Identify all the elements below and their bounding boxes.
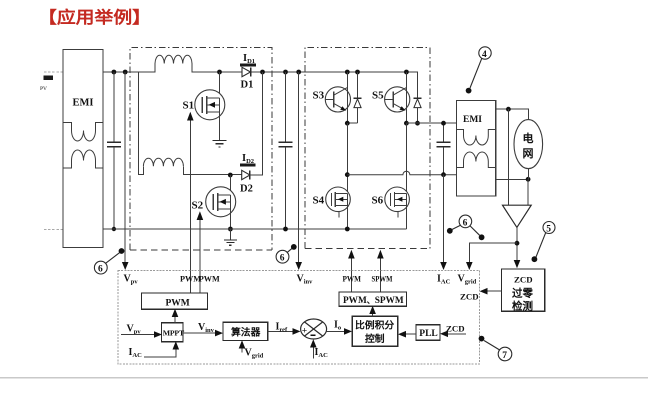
svg-text:比例积分: 比例积分 bbox=[355, 319, 394, 332]
diode D2 bbox=[240, 170, 253, 194]
circled 6 middle with callout bbox=[276, 244, 297, 264]
ground under S1 bbox=[213, 141, 227, 147]
EMI filter U2 box bbox=[457, 100, 496, 196]
svg-text:MPPT: MPPT bbox=[163, 329, 185, 338]
IAC stub arrow into summing bbox=[310, 339, 328, 359]
svg-text:算法器: 算法器 bbox=[230, 326, 261, 339]
circled 7 with callout bbox=[479, 336, 512, 361]
circled 6 left with callout bbox=[94, 248, 124, 274]
Vgrid branch wire with arrow bbox=[466, 243, 517, 270]
label IAC top bbox=[437, 274, 451, 286]
diode of S5 bbox=[404, 72, 421, 126]
EMI U1 choke upper winding bbox=[63, 123, 103, 142]
SPWM gate arrow left bbox=[348, 250, 355, 292]
svg-text:D2: D2 bbox=[240, 184, 253, 195]
svg-text:控制: 控制 bbox=[365, 332, 385, 345]
boost converter dashed-dot box bbox=[130, 48, 272, 250]
inductor L2 bbox=[143, 158, 183, 166]
label IAC inner + elbow arrow to MPPT bbox=[129, 341, 180, 359]
AC filter capacitor C3 bbox=[437, 121, 451, 177]
sense wire upper to comparator bbox=[507, 109, 509, 205]
full bridge dash-dot box bbox=[305, 47, 430, 248]
current label ID2 bbox=[240, 153, 256, 166]
Vgrid stub arrow into 算法器 bbox=[239, 340, 264, 359]
arrow MPPT to 算法器 + label Vinv bbox=[183, 322, 223, 336]
circled 5 with callout bbox=[532, 222, 556, 263]
separator line bottom bbox=[0, 377, 648, 379]
svg-text:+: + bbox=[302, 326, 307, 336]
svg-text:PV: PV bbox=[40, 86, 47, 92]
PWM gate wire S2 bbox=[197, 211, 204, 293]
DC negative bus wire bbox=[103, 228, 406, 230]
svg-text:6: 6 bbox=[280, 254, 285, 264]
ZCD detection box bbox=[502, 269, 545, 312]
circled 6 right with two callouts bbox=[447, 215, 485, 240]
DC positive bus wire bbox=[103, 64, 418, 73]
arrow PLL to 比例积分控制 bbox=[398, 331, 416, 338]
transistor S3 bbox=[313, 72, 351, 123]
Vpv sense wire with arrow bbox=[122, 72, 129, 270]
svg-text:ZCD: ZCD bbox=[446, 324, 465, 334]
svg-text:PWM: PWM bbox=[199, 275, 220, 284]
svg-text:S4: S4 bbox=[313, 195, 325, 207]
PWM SPWM block bbox=[339, 292, 407, 306]
label PWM PWM top bbox=[180, 275, 220, 284]
node junction dots on positive bus bbox=[112, 70, 409, 75]
AC output line B wire bbox=[406, 122, 456, 124]
EMI U1 choke lower winding bbox=[63, 150, 103, 168]
PLL block bbox=[416, 325, 440, 341]
grid output upper wire bbox=[496, 107, 529, 120]
svg-text:【应用举例】: 【应用举例】 bbox=[38, 7, 151, 27]
AC output line A wire with hop bbox=[347, 171, 456, 174]
svg-text:6: 6 bbox=[98, 265, 103, 275]
比例积分控制 block bbox=[352, 316, 398, 346]
svg-text:7: 7 bbox=[502, 351, 507, 361]
svg-text:EMI: EMI bbox=[73, 98, 94, 109]
svg-text:电: 电 bbox=[523, 131, 534, 145]
svg-text:ZCD: ZCD bbox=[514, 275, 533, 285]
mosfet S4 bbox=[313, 187, 351, 231]
svg-text:过零: 过零 bbox=[512, 287, 533, 300]
Vinv sense wire with arrow bbox=[295, 72, 302, 270]
label ZCD right bbox=[460, 292, 479, 302]
svg-text:PLL: PLL bbox=[419, 329, 437, 339]
diode of S3 bbox=[345, 72, 361, 126]
SPWM gate arrow right bbox=[377, 250, 384, 292]
svg-text:EMI: EMI bbox=[463, 115, 482, 125]
grid output lower wire bbox=[496, 177, 531, 182]
PWM block bbox=[142, 293, 208, 309]
ground under S2 bbox=[224, 229, 237, 245]
label PWM top bbox=[343, 274, 362, 284]
EMI U2 choke lower winding bbox=[457, 152, 496, 168]
label Vinv top bbox=[297, 274, 314, 286]
label SPWM top bbox=[372, 274, 394, 284]
PWM gate wire S1 bbox=[187, 112, 194, 293]
input capacitor C1 bbox=[107, 72, 121, 231]
svg-text:ZCD: ZCD bbox=[460, 292, 479, 302]
label Vpv inner + arrow to MPPT bbox=[121, 324, 162, 338]
arrow MPPT to PWM bbox=[172, 309, 179, 323]
comparator triangle bbox=[503, 205, 532, 227]
svg-text:S5: S5 bbox=[372, 90, 384, 102]
mosfet S2 bbox=[192, 175, 236, 231]
svg-text:SPWM: SPWM bbox=[372, 274, 394, 284]
arrow 比例积分控制 to PWM SPWM bbox=[369, 306, 376, 317]
title 应用举例 bbox=[38, 7, 151, 27]
EMI U2 choke upper winding bbox=[457, 130, 496, 146]
control section box bbox=[118, 270, 480, 364]
svg-text:S1: S1 bbox=[183, 100, 195, 112]
MPPT block bbox=[162, 323, 185, 342]
label Vgrid top bbox=[458, 274, 477, 286]
svg-text:PWM、SPWM: PWM、SPWM bbox=[343, 296, 404, 306]
arrow 算法器 to summing + label Iref bbox=[268, 322, 301, 335]
transistor S5 bbox=[372, 72, 410, 123]
node dot D2 anode bbox=[228, 173, 233, 178]
wire branch to inductor L2 bbox=[139, 72, 242, 175]
svg-text:4: 4 bbox=[482, 50, 487, 60]
svg-text:5: 5 bbox=[546, 224, 551, 234]
svg-text:检测: 检测 bbox=[512, 300, 533, 313]
EMI filter U1 box bbox=[63, 50, 103, 248]
DC link capacitor C2 bbox=[279, 72, 293, 231]
mosfet S6 bbox=[372, 187, 410, 229]
svg-text:PWM: PWM bbox=[166, 298, 190, 308]
grid 电网 ellipse bbox=[514, 120, 543, 180]
svg-text:S3: S3 bbox=[313, 90, 325, 102]
mosfet S1 bbox=[183, 72, 225, 141]
svg-text:S6: S6 bbox=[372, 195, 384, 207]
diode D1 bbox=[241, 67, 254, 90]
current label ID1 bbox=[240, 53, 256, 66]
svg-text:网: 网 bbox=[523, 147, 534, 160]
svg-text:D1: D1 bbox=[241, 80, 254, 91]
leg B vertical wire bbox=[405, 123, 407, 192]
IAC sense wire with arrow bbox=[440, 175, 447, 270]
circled 4 with callout bbox=[466, 47, 491, 94]
Vgrid output wire with arrow into ZCD bbox=[514, 227, 521, 268]
ZCD output arrow into control box bbox=[480, 288, 502, 295]
label Vpv top bbox=[124, 274, 139, 286]
label ZCD inner + arrow into PLL bbox=[440, 324, 466, 338]
算法器 block bbox=[223, 322, 268, 340]
svg-text:PWM: PWM bbox=[343, 274, 362, 284]
PV input wire bottom bbox=[44, 228, 63, 230]
svg-text:S2: S2 bbox=[192, 200, 204, 212]
arrow summing to 比例积分控制 + label Io bbox=[327, 320, 352, 335]
sense wire lower to comparator bbox=[527, 179, 529, 205]
PV input wire top bbox=[40, 72, 63, 92]
leg A vertical wire bbox=[345, 123, 350, 192]
svg-text:6: 6 bbox=[463, 218, 468, 228]
inductor L1 bbox=[155, 55, 192, 63]
wire D2 cathode to positive bus bbox=[250, 72, 263, 175]
summing junction bbox=[301, 319, 327, 339]
